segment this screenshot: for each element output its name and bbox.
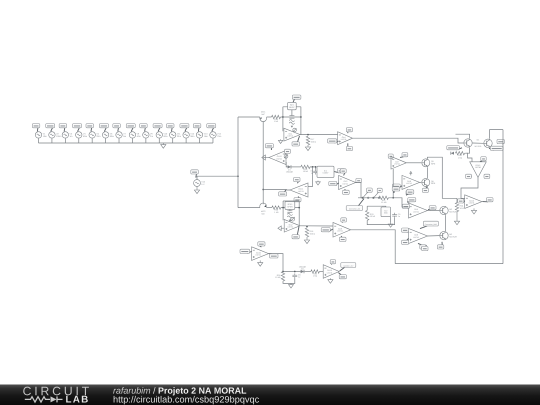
label tag above OA14 (294, 177, 300, 183)
wire feedback left edge OA1 (282, 107, 284, 131)
svg-text:100 Ω: 100 Ω (311, 140, 317, 143)
capacitor C6 1u (292, 273, 301, 278)
net label tag right of OA5 (428, 206, 436, 210)
wire D2 to R23 (304, 271, 310, 273)
svg-text:90m: 90m (190, 135, 194, 138)
wire switch line (358, 197, 380, 199)
wire R21 to OA5 inputs (388, 198, 408, 207)
wire loop bottom (395, 263, 503, 265)
svg-text:100m: 100m (56, 135, 61, 138)
svg-text:MOTOR: MOTOR (449, 210, 457, 213)
svg-text:10 Ω: 10 Ω (460, 207, 465, 210)
svg-text:60m: 60m (163, 135, 167, 138)
node label tag for source V6 (99, 124, 108, 132)
wire OA13 output down (264, 157, 266, 159)
voltage source V12 (183, 132, 195, 138)
junction OA2 output / R18 (306, 226, 308, 228)
wire OA3 output to switch line (356, 183, 361, 198)
voltage source V1 (35, 132, 47, 138)
label tag below OA1 (292, 136, 300, 146)
svg-text:1 kΩ: 1 kΩ (274, 120, 279, 123)
label tag below OA6 (418, 243, 426, 249)
voltage source V7 (116, 132, 127, 138)
resistor R23 1k (311, 270, 320, 278)
label tag above IC2 area 2 (406, 190, 414, 195)
op-amp OA6 (409, 229, 428, 244)
op-amp OA4 (338, 132, 353, 145)
svg-text:LM741: LM741 (469, 201, 475, 204)
voltage source V6 (102, 132, 114, 138)
wire from V14 to bus (212, 138, 214, 143)
switch SW1 (362, 193, 369, 199)
ground left of OA13 (262, 155, 269, 160)
wire right rail (502, 130, 504, 264)
junction block2 right (298, 207, 300, 209)
node label tag for source V2 (46, 124, 55, 132)
wire R22 to OA11 (465, 153, 472, 162)
wire R20 top (366, 206, 368, 210)
net label tag left of motor (447, 146, 462, 150)
wire left loop vertical (237, 117, 239, 208)
svg-text:LM741: LM741 (343, 182, 349, 185)
label tag above SW2 (377, 188, 382, 192)
label tag below Q4 (437, 242, 443, 249)
sound wave marks block1 (289, 120, 294, 128)
node label tag for source V10 (153, 124, 162, 132)
node label tag for source V3 (59, 124, 67, 132)
svg-text:80m: 80m (110, 135, 114, 138)
wire source bus (39, 142, 213, 144)
svg-text:1N4148: 1N4148 (286, 171, 294, 174)
resistor R16 1k (272, 115, 281, 123)
ground below OA15 (328, 278, 333, 283)
svg-text:1 kΩ: 1 kΩ (274, 211, 279, 214)
wire from V4 to bus (78, 138, 80, 143)
diode D1 1N4148 (286, 165, 294, 173)
wire feedback right edge OA1 (300, 107, 302, 135)
op-amp OA15 (323, 265, 339, 279)
voltage source V14 (194, 180, 206, 187)
wire block2 right edge (298, 201, 300, 226)
net label tag at OA10 output (269, 254, 278, 258)
switch SW2 (373, 193, 380, 199)
resistor R22 1k (455, 152, 464, 160)
label tag Converter_clock (346, 199, 364, 211)
junction at main loop left edge (237, 175, 239, 177)
ground below RC (289, 283, 294, 288)
wire from V2 to bus (51, 138, 53, 143)
voltage source V8 (129, 132, 141, 138)
net label tag speaker_drive (340, 263, 356, 271)
label tag below OA14 (294, 197, 301, 202)
wire from V6 to bus (105, 138, 107, 143)
svg-text:LM741: LM741 (256, 253, 262, 256)
svg-text:1u: 1u (298, 276, 300, 279)
label tag above OA11 (480, 157, 486, 162)
wire R19 to junction (310, 166, 313, 168)
svg-text:5m: 5m (123, 135, 126, 138)
power arrow symbol block2 (291, 217, 295, 221)
wire A_left input to D1 (286, 162, 287, 167)
wire top branch to MIC1 (238, 116, 260, 118)
wire Q6 emitter stub (426, 187, 428, 191)
wire from V5 to bus (91, 138, 93, 143)
svg-text:MOTOR: MOTOR (449, 235, 457, 238)
label tag above OA4 (346, 128, 352, 134)
svg-text:speaker_drv: speaker_drv (343, 264, 353, 267)
label tag right of IC1 (334, 169, 345, 173)
svg-text:10 kΩ: 10 kΩ (303, 170, 309, 173)
wire OA6 to Q4 (428, 235, 440, 237)
label tag above OA7 (400, 153, 408, 158)
node label tag for source V4 (73, 124, 82, 132)
svg-text:20m: 20m (96, 135, 100, 138)
label tag Converter_block (407, 198, 416, 202)
wire OA14 output to mic vertical (263, 189, 290, 192)
svg-text:Converter_blk2: Converter_blk2 (425, 223, 437, 226)
op-amp OA9 (333, 223, 351, 238)
capacitor C4 label (311, 170, 313, 175)
label tag below OA4 (346, 143, 352, 150)
converter box IC1 (317, 166, 334, 177)
svg-text:1u: 1u (398, 215, 400, 218)
wire from V7 to bus (118, 138, 120, 143)
svg-text:LM741: LM741 (327, 271, 333, 274)
resistor R24 10 (455, 203, 464, 212)
voltage source V14 (210, 132, 222, 138)
label tag above OA15 (330, 260, 335, 265)
op-amp OA10 (252, 247, 269, 261)
svg-text:1m: 1m (70, 135, 73, 138)
wire mic common vertical (262, 122, 264, 205)
diode D2 1N4148 (299, 265, 307, 273)
label tag above OA3 (340, 169, 346, 176)
wire from V3 to bus (64, 138, 66, 143)
svg-text:NPN: NPN (431, 163, 436, 166)
wire OA11 output down (461, 177, 478, 198)
voltage source V9 (143, 132, 154, 138)
label tag above OA7 left (388, 154, 393, 158)
resistor R21 10k (379, 196, 388, 204)
op-amp OA11 (down) (470, 162, 487, 178)
node label tag for source V7 (113, 124, 121, 132)
svg-text:10 kΩ: 10 kΩ (275, 276, 281, 279)
timer box IC2 (381, 207, 391, 217)
wire BZ1 to capacitor plate (291, 110, 293, 116)
ground below OA10 (258, 260, 263, 266)
label tag above OA9 (341, 218, 347, 223)
ground below OA12 (471, 208, 476, 214)
op-amp OA7 (391, 157, 406, 170)
junction RC top left (282, 271, 284, 273)
op-amp OA2 (284, 220, 300, 233)
ground on source bus (161, 143, 166, 148)
op-amp OA1 (284, 128, 300, 141)
wire bottom branch to MIC2 (238, 207, 260, 209)
ground below R18 (304, 237, 309, 244)
svg-text:LM741: LM741 (337, 230, 343, 233)
svg-text:10 kΩ: 10 kΩ (381, 201, 387, 204)
label tag below OA2 (292, 226, 299, 238)
speaker SPK1 (285, 202, 295, 210)
transistor Q6 (422, 178, 436, 186)
capacitor plates inside block2 (287, 211, 292, 213)
svg-text:100 Ω: 100 Ω (310, 232, 316, 235)
wire Q1 emitter down (466, 148, 469, 154)
wire block2 top edge (283, 200, 299, 202)
resistor R17 100 (306, 136, 316, 145)
junction block1 right (300, 116, 302, 118)
label tag left of OA11 (466, 174, 472, 178)
wire OA1 output (300, 134, 337, 136)
microphone MIC1 (260, 110, 267, 121)
label tag left of OA12 (458, 199, 465, 203)
junction OA1 output / R17 (307, 134, 309, 136)
wire from V13 to bus (199, 138, 201, 143)
capacitor C4 (313, 169, 318, 174)
label tag Converter_block2 (420, 221, 438, 228)
wire 555 top link (367, 205, 386, 208)
label tag above SW1 (367, 188, 373, 193)
power arrow at OA13 (284, 154, 288, 158)
microphone MIC2 (260, 203, 267, 215)
svg-text:LM741: LM741 (288, 134, 294, 137)
wire from V11 to bus (172, 138, 174, 143)
op-amp OA8 (402, 171, 420, 189)
ground below IC2 (388, 223, 393, 228)
label tag below Q4 left (422, 245, 428, 251)
wire MIC2 to R25 (267, 207, 272, 209)
ground below R17 (305, 145, 310, 151)
voltage source V3 (62, 132, 73, 138)
label tag below Q6 (422, 187, 428, 193)
net label tag right of motor (489, 146, 503, 150)
svg-text:LM741: LM741 (288, 226, 294, 229)
node label tag for source V14 (207, 124, 216, 132)
diode D3 (451, 152, 454, 155)
net label tag at OA14 output (279, 190, 287, 196)
svg-text:70m: 70m (217, 135, 221, 138)
node label tag for source V8 (126, 124, 135, 132)
ground below IC1 (316, 181, 321, 185)
wire V14 to main loop (197, 176, 238, 179)
motor M1 label (475, 139, 482, 148)
node label tag for source V5 (86, 124, 94, 132)
wire down to OA2mid input (308, 167, 313, 187)
wire OA8 to Q6 (420, 181, 422, 183)
node label tag for source V9 (140, 124, 148, 132)
op-amp OA3 (339, 176, 356, 190)
svg-text:NPN: NPN (431, 182, 436, 185)
svg-text:50m: 50m (83, 135, 87, 138)
svg-text:LM741: LM741 (406, 182, 412, 185)
capacitor C5 (392, 213, 401, 218)
wire from V9 to bus (145, 138, 147, 143)
svg-text:LM741: LM741 (276, 157, 282, 160)
transistor Q4 (440, 231, 458, 239)
svg-text:10 kΩ: 10 kΩ (370, 215, 376, 218)
wire OA4 output to motor M1 (353, 138, 464, 143)
wire Q5 emitter to Q6 collector (426, 167, 428, 178)
svg-text:MOTOR: MOTOR (475, 145, 482, 148)
junction mic vertical to OA14 (262, 189, 264, 191)
voltage source V10 (156, 132, 168, 138)
wire R23 to OA15 (319, 271, 323, 273)
wire R16 to feedback loop (281, 116, 301, 118)
resistor R19 10k (301, 165, 310, 173)
net label tag at OA12 output (482, 198, 493, 202)
wire into IC1 (310, 167, 315, 170)
svg-text:40m: 40m (137, 135, 141, 138)
wire Q2 collector to right rail (490, 130, 503, 139)
svg-text:2m: 2m (150, 135, 153, 138)
label tag left of OA5 (402, 204, 409, 208)
label tag left of OA9 (321, 228, 333, 232)
label tag below OA15 (338, 273, 346, 279)
wire 555 bottom link (367, 218, 394, 225)
voltage source V11 (170, 132, 182, 138)
svg-text:15m: 15m (204, 135, 208, 138)
junction switch 1 (362, 197, 364, 199)
svg-text:BUZZ: BUZZ (289, 106, 295, 109)
label tag left of OA3 (329, 181, 339, 185)
label tag left of OA10 (240, 249, 252, 253)
node label tag for source V12 (180, 124, 189, 132)
capacitor plates inside block1 (289, 116, 294, 119)
svg-text:1 kΩ: 1 kΩ (458, 156, 463, 159)
op-amp OA14 (left) (290, 183, 308, 197)
node label tag for source V11 (167, 124, 175, 132)
node label tag for source V1 (32, 124, 40, 132)
label tag right of OA13 (285, 149, 291, 153)
resistor R25 1k (272, 206, 281, 214)
wire from V12 to bus (185, 138, 187, 143)
voltage source V13 (196, 132, 208, 138)
label tag below OA8 (406, 189, 412, 194)
junction node after R19 (312, 166, 314, 168)
svg-text:1N4148: 1N4148 (299, 265, 307, 268)
wire between Q1 Q2 (473, 142, 484, 144)
buzzer BZ1 (288, 102, 297, 109)
svg-text:LM741: LM741 (394, 163, 400, 166)
resistor R26 10k (275, 272, 285, 282)
label tag for buzzer BZ1 (292, 95, 301, 103)
svg-text:Converter_clk: Converter_clk (349, 207, 360, 210)
transistor Q2 (484, 139, 492, 147)
junction diode line & cap (315, 166, 317, 168)
label tag at OA4 input (328, 139, 339, 143)
wire from V10 to bus (158, 138, 160, 143)
resistor R18 100 (305, 228, 315, 237)
wire OA9 output loop (351, 230, 396, 264)
svg-text:30m: 30m (177, 135, 181, 138)
label tag above OA10 (258, 242, 265, 247)
op-amp OA13 (left) (269, 151, 286, 165)
transistor Q1 (464, 139, 472, 147)
label tag left of OA8 (392, 184, 402, 188)
power arrow at OA1 (293, 128, 297, 132)
svg-text:CONV: CONV (323, 172, 329, 175)
junction RC top right (294, 271, 296, 273)
transistor Q5 (422, 159, 436, 167)
node label tag for source V14 (191, 170, 199, 178)
wire feedback top edge OA1 (283, 106, 301, 108)
ground left of OA2 (278, 226, 284, 231)
footer bar (0, 385, 540, 405)
ground below V14 (194, 186, 199, 193)
svg-text:LM741: LM741 (413, 236, 419, 239)
net label tag on right rail (497, 139, 504, 144)
wire OA5 to Q3 (428, 210, 440, 212)
svg-text:10m: 10m (43, 135, 47, 138)
wire block2 left edge (282, 201, 284, 220)
voltage source V2 (49, 132, 62, 138)
wire Q1 collector up (456, 134, 470, 138)
label tag right of OA11 (484, 174, 490, 178)
junction block2 left (282, 207, 284, 209)
label tag left of OA6 (402, 228, 409, 232)
wire Q3 to Q4 (445, 215, 447, 231)
svg-text:SPKR: SPKR (287, 205, 293, 208)
node label tag for source V13 (193, 124, 201, 132)
ground below R24 (454, 212, 459, 225)
resistor R20 10k (366, 210, 376, 220)
wire from V1 to bus (38, 138, 40, 143)
ground at OA1 + input (278, 139, 282, 143)
voltage source V4 (76, 132, 88, 138)
label tag below OA9 (339, 236, 346, 241)
voltage source V5 (89, 132, 101, 138)
wire OA7 to Q5 (406, 162, 421, 164)
op-amp OA12 (465, 195, 482, 209)
wire OA2 output (300, 225, 333, 227)
svg-text:M1: M1 (477, 139, 480, 142)
wire MIC1 to R16 (267, 116, 272, 118)
svg-text:LM741: LM741 (475, 166, 482, 169)
junction switch 2 (373, 197, 375, 199)
wire Q5 collector rail (427, 157, 457, 198)
wire RC bottom (283, 279, 295, 284)
junction block1 left (282, 116, 284, 118)
wire R25 to block2 (281, 207, 299, 209)
label tag left low of OA6 (402, 238, 409, 244)
svg-text:LM741: LM741 (341, 138, 347, 141)
junction R21 right (392, 197, 394, 199)
wire RC top (283, 271, 301, 273)
wire SPK1 down (289, 209, 291, 210)
wire OA10 output down (269, 254, 283, 272)
svg-text:LM741: LM741 (413, 210, 419, 213)
label tag below OA3 (343, 189, 350, 194)
label tag above OA13 (265, 144, 273, 150)
svg-text:1 kΩ: 1 kΩ (313, 275, 318, 278)
wire D1 to R19 (291, 166, 300, 168)
label tag above IC2 area 1 (392, 187, 400, 193)
wire R24 top stub (456, 198, 458, 202)
sound wave marks block2 (287, 213, 292, 221)
wire from V8 to bus (131, 138, 133, 143)
transistor Q3 (440, 206, 458, 214)
op-amp OA5 (409, 203, 428, 218)
wire OA7 inputs vertical (392, 169, 394, 198)
svg-text:LM741: LM741 (298, 190, 304, 193)
net label tag at OA3 output (356, 178, 362, 182)
wire IC2 ground stub (390, 217, 392, 223)
